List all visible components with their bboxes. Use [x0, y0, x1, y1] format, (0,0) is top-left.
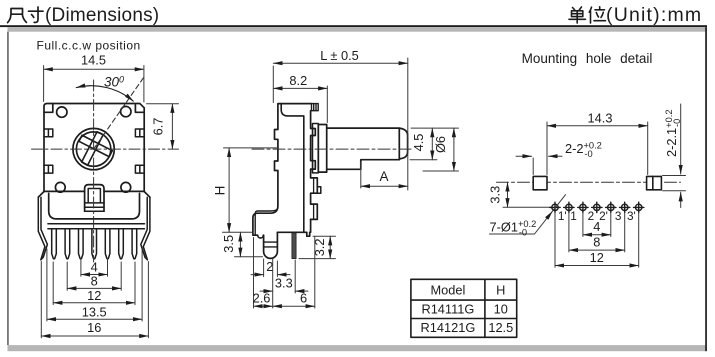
hole number labels: [558, 209, 636, 223]
table grid: [411, 279, 517, 337]
shaft centerline: [252, 148, 414, 150]
table text: [421, 282, 514, 335]
rotor inner circle: [76, 132, 110, 166]
svg-text:12: 12: [590, 250, 604, 265]
side square lower-left: [44, 165, 53, 173]
rotor outer circle: [73, 128, 114, 169]
svg-text:4: 4: [593, 219, 600, 234]
side body bottom right portion: [277, 219, 310, 236]
skirt band lines: [48, 224, 145, 229]
dim H: [224, 148, 279, 232]
rotor cross slot: [71, 126, 117, 172]
svg-text:14.3: 14.3: [588, 111, 613, 126]
top retaining tab: [312, 104, 319, 111]
30 deg arc: [76, 86, 133, 101]
pin 4: [92, 229, 97, 259]
pin 7: [132, 229, 137, 259]
dim 2-2 with tolerance: [516, 156, 562, 174]
dim 4 detail: [583, 213, 611, 237]
right edge with clip rects: [311, 111, 318, 220]
leader tail through hole: [552, 195, 565, 212]
screw hole top-left: [57, 107, 67, 117]
corner notch square TL: [44, 104, 53, 113]
svg-text:10: 10: [494, 302, 508, 317]
dim 14.3: [547, 122, 648, 175]
pad left: [533, 176, 547, 189]
shaft outline: [327, 128, 408, 169]
svg-text:14.5: 14.5: [81, 53, 106, 68]
leader 7-dia1: [490, 211, 553, 234]
side square lower-right: [135, 165, 144, 173]
svg-text:Full.c.c.w position: Full.c.c.w position: [37, 39, 141, 53]
svg-text:3': 3': [627, 209, 636, 223]
left border line: [7, 32, 8, 345]
bushing: [318, 125, 326, 173]
svg-text:2.6: 2.6: [253, 291, 271, 306]
pad right: [647, 176, 662, 189]
screw hole bottom-left: [55, 182, 65, 192]
dim 8 detail: [569, 213, 625, 252]
skirt outline: [38, 192, 150, 198]
center detent housing: [85, 185, 104, 212]
top gray band: [8, 27, 706, 32]
inner bend bottom-left: [255, 208, 278, 236]
centerline vertical: [93, 80, 95, 262]
bottom gray band: [8, 345, 706, 351]
dim 8.2: [273, 86, 327, 123]
pin 5: [105, 229, 110, 259]
svg-text:4.5: 4.5: [411, 134, 426, 152]
pin 3: [79, 229, 84, 259]
svg-text:1: 1: [570, 209, 577, 223]
svg-text:L ± 0.5: L ± 0.5: [320, 48, 359, 63]
svg-text:6.7: 6.7: [151, 118, 166, 136]
svg-text:8: 8: [91, 274, 98, 289]
right border line: [705, 27, 707, 351]
svg-text:1': 1': [558, 209, 567, 223]
dim A: [361, 162, 408, 188]
clip rect hatches: [313, 129, 314, 220]
svg-text:7-Ø1+0.2-0: 7-Ø1+0.2-0: [490, 219, 537, 237]
dim 4 bottom: [81, 259, 108, 277]
side square upper-right: [135, 129, 144, 137]
dim 14.5: [44, 66, 144, 103]
dim 2 pin: [251, 259, 290, 277]
svg-text:2-2+0.2-0: 2-2+0.2-0: [565, 141, 602, 159]
svg-text:R14121G: R14121G: [421, 320, 476, 335]
screw hole bottom-right: [121, 182, 131, 192]
svg-text:3.5: 3.5: [221, 235, 236, 253]
svg-text:8.2: 8.2: [289, 73, 307, 88]
svg-text:H: H: [213, 186, 228, 196]
dim dia 6: [423, 128, 459, 171]
top black rule: [0, 25, 707, 27]
svg-text:Ø6: Ø6: [433, 136, 448, 153]
front pin U outline: [264, 232, 278, 258]
title 单位 glyph: [569, 7, 606, 23]
support leg left: [38, 197, 47, 260]
svg-text:2': 2': [599, 209, 608, 223]
dim 4.5: [410, 128, 459, 160]
dim 2-2.1 vertical with tolerance: [663, 104, 686, 208]
dim 12 bottom: [53, 262, 135, 305]
holes row (7 x dia1): [550, 202, 644, 212]
30 deg dashed line: [94, 77, 144, 149]
dim 3.3 detail: [503, 182, 551, 207]
dim 3.5: [223, 232, 263, 256]
pins row: [52, 229, 137, 259]
dim 16 bottom: [41, 262, 148, 338]
side square upper-left: [44, 129, 53, 137]
side body outline: [253, 104, 312, 238]
svg-text:R14111G: R14111G: [421, 302, 474, 317]
dim 13.5 bottom: [47, 249, 142, 321]
dim 2.6: [254, 238, 273, 309]
dim 6.7: [147, 104, 179, 149]
svg-text:Mounting hole detail: Mounting hole detail: [522, 51, 653, 66]
pin crimp lines: [264, 242, 278, 247]
svg-text:4: 4: [91, 260, 98, 275]
skirt inner U: [49, 193, 140, 219]
pot body outline: [44, 104, 144, 192]
svg-text:300: 300: [104, 75, 124, 90]
svg-text:3.3: 3.3: [275, 275, 293, 290]
svg-text:12: 12: [87, 288, 101, 303]
inner cover bend line: [281, 104, 304, 233]
solid pin bar: [292, 233, 296, 259]
dim 6 side: [273, 237, 315, 309]
corner notch square TR: [135, 105, 144, 113]
svg-text:8: 8: [593, 234, 600, 249]
title 尺寸 glyph: [8, 7, 43, 23]
dim 12 detail: [555, 213, 639, 268]
svg-text:13.5: 13.5: [82, 304, 107, 319]
support leg right: [141, 197, 150, 260]
dim 3.2: [299, 236, 336, 258]
svg-text:(Dimensions): (Dimensions): [45, 5, 159, 26]
svg-text:3.2: 3.2: [312, 239, 327, 257]
dim 8 bottom: [67, 262, 121, 290]
svg-text:(Unit):mm: (Unit):mm: [606, 4, 702, 26]
svg-text:H: H: [496, 282, 505, 297]
centerline horizontal: [32, 148, 179, 150]
body bottom edge: [44, 190, 144, 192]
svg-text:3: 3: [615, 209, 622, 223]
dim L +-0.5: [273, 58, 408, 190]
svg-text:A: A: [379, 169, 388, 184]
pin 1: [52, 229, 57, 259]
nub on clip: [317, 187, 321, 193]
pin 2: [65, 229, 70, 259]
svg-text:12.5: 12.5: [488, 320, 513, 335]
svg-text:6: 6: [300, 291, 307, 306]
svg-text:16: 16: [87, 320, 101, 335]
detail centerline: [497, 181, 681, 183]
screw hole top-right: [121, 106, 131, 116]
washer: [313, 124, 319, 173]
svg-text:2-2.1+0.2-0: 2-2.1+0.2-0: [664, 109, 682, 157]
svg-text:3.3: 3.3: [488, 186, 503, 204]
dim 3.3 side: [260, 259, 308, 308]
svg-text:Model: Model: [430, 282, 465, 297]
pin 6: [119, 229, 124, 259]
